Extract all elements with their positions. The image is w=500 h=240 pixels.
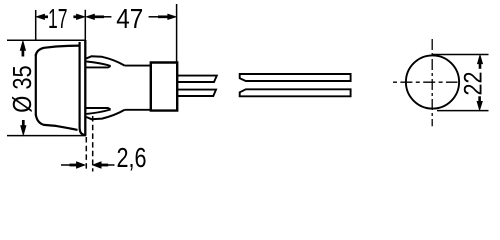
2,6 dimension line left tail [61,164,71,166]
extension line for 17 (left, at lens face) [35,10,37,40]
extension line bottom (22 lower) [437,110,489,112]
lens bottom edge [36,115,78,130]
22 dimension arrow down [477,102,482,110]
lens front face [35,54,37,116]
svg-text:22: 22 [460,72,488,96]
upper bayonet wing silhouette [86,56,124,65]
svg-text:Ø 35: Ø 35 [7,65,37,113]
hidden back face dashed line (flange rear) [85,137,87,172]
extension line right of 47 (at connector face) [176,4,178,62]
socket barrel bottom edge [125,109,151,111]
extension line bottom (Ø35 lower) [7,135,86,137]
17 dimension left arrow [36,14,44,19]
extension line top (Ø35 upper) [7,39,85,41]
hidden line at 2.6 offset [92,116,94,172]
vertical centerline [431,39,433,126]
cable bar upper [240,74,351,81]
cable bar lower [240,89,351,96]
47 dimension right arrow [168,14,176,19]
17 dimension right arrow [77,14,85,19]
47 dimension line left segment [104,16,112,18]
lower wing pin bottom line [87,110,111,114]
2,6 dimension line right tail [107,164,114,166]
terminal blade 2 [178,90,216,96]
lower bayonet wing silhouette [86,110,124,119]
upper wing pin bottom line [86,66,111,67]
47 dimension left arrow [86,14,94,19]
extension line at flange (17/47 shared) [84,10,86,40]
Ø35 dimension arrow up [20,41,25,50]
terminal blade 1 [178,76,217,82]
flange face (front) [84,40,86,136]
2,6 left arrow [77,162,85,168]
svg-text:47: 47 [116,3,143,34]
svg-text:2,6: 2,6 [117,142,147,173]
2,6 right arrow [93,162,101,168]
upper wing pin top line [87,62,111,66]
lower wing pin top line [86,108,111,109]
47 dimension line right segment [149,16,159,18]
lens base rim right edge [80,42,85,135]
connector block outline [151,63,177,111]
lens top edge [36,46,80,56]
barrel/connector step [150,63,152,111]
front view circle [406,55,459,108]
socket barrel top edge [125,65,151,67]
svg-text:17: 17 [48,3,68,34]
22 dimension arrow up [478,55,483,63]
Ø35 dimension arrow down [21,126,26,135]
horizontal centerline [393,81,458,83]
extension line top (22 upper) [433,54,489,56]
